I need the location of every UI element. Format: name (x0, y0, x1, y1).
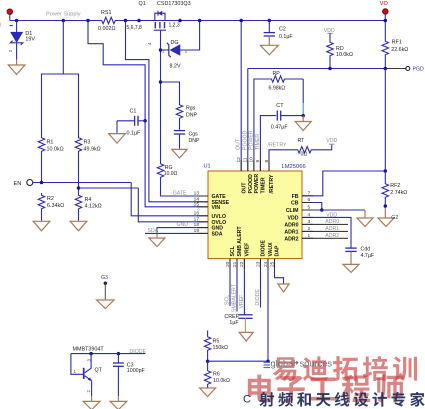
svg-text:2: 2 (86, 390, 91, 393)
node C3 junction (117, 352, 121, 356)
svg-text:EN: EN (14, 181, 22, 187)
svg-text:6.98kΩ: 6.98kΩ (269, 86, 286, 92)
svg-text:SCL: SCL (230, 245, 236, 256)
svg-text:VREF: VREF (239, 295, 245, 309)
wire SMBALERT pin 21 (236, 259, 238, 312)
ground at CLIM (357, 218, 373, 227)
ground under R2 (33, 221, 50, 231)
svg-text:6.34kΩ: 6.34kΩ (47, 203, 64, 209)
ground G2 (378, 218, 394, 227)
svg-text:Cdd: Cdd (361, 247, 371, 253)
capacitor C2 0.1uF (268, 21, 270, 33)
svg-text:CREF: CREF (224, 314, 239, 320)
wire VIN net to pin 15 (88, 21, 208, 207)
wire RD to PGD line (329, 58, 331, 69)
node RD PGD junction (328, 67, 332, 71)
svg-text:C: C (243, 394, 251, 406)
svg-text:sources: sources (300, 359, 333, 369)
svg-text:RT: RT (298, 138, 306, 144)
ground at GND pin (149, 238, 165, 247)
svg-text:POWER: POWER (248, 130, 254, 150)
wire Cgs to ground (179, 134, 181, 149)
svg-text:CLIM: CLIM (286, 208, 299, 214)
svg-text:R2: R2 (47, 196, 54, 202)
svg-text:ADR0: ADR0 (325, 219, 339, 225)
svg-text:1000pF: 1000pF (127, 368, 146, 374)
resistor R6 10.0k (207, 361, 209, 368)
capacitor Cgs DNP (174, 130, 185, 132)
wire DIODE net at QT (71, 353, 145, 355)
ground under R4 (70, 221, 87, 231)
svg-text:Power Supply: Power Supply (46, 12, 81, 18)
wire R2 to ground (41, 211, 43, 221)
node D1 junction on rail (15, 19, 19, 23)
wire SDA pin 19 (145, 232, 208, 234)
svg-text:SMB ALERT: SMB ALERT (237, 226, 243, 257)
wire PGD to terminal (387, 68, 406, 70)
svg-text:R3: R3 (84, 140, 91, 146)
svg-text:150kΩ: 150kΩ (213, 345, 228, 351)
node Q1 source on rail (178, 19, 182, 23)
diode DG zener 8.2V gate protect (161, 49, 169, 51)
svg-text:R6: R6 (213, 372, 220, 378)
ground under R6 (200, 388, 216, 397)
svg-text:ADR2: ADR2 (284, 236, 298, 242)
resistor R1 10.0k (38, 136, 44, 154)
node DG rail junction (198, 19, 202, 23)
capacitor C3 1000pF (117, 354, 119, 363)
svg-text:C2: C2 (279, 27, 286, 33)
wire RP right (287, 78, 304, 80)
svg-text:49.9kΩ: 49.9kΩ (84, 147, 101, 153)
node C2 rail junction (268, 19, 272, 23)
svg-text:FB: FB (292, 194, 299, 200)
node gate Rgs junction (159, 80, 163, 84)
U1 pin stubs (197, 195, 208, 197)
node VAUX corner (266, 359, 270, 363)
resistor RG 10.0ohm gate (157, 162, 163, 180)
wire PGD horizontal line (248, 68, 387, 70)
node VO rail junction (384, 19, 388, 23)
wire Q1 gate net (160, 30, 162, 161)
wire QT base tie (71, 354, 84, 375)
svg-text:RF1: RF1 (392, 40, 402, 46)
wire EN / UVLO net (33, 182, 131, 184)
svg-text:VIN: VIN (212, 205, 221, 211)
node C1 junction (143, 119, 147, 123)
svg-text:U1: U1 (204, 164, 211, 170)
wire VO stub (384, 14, 386, 21)
watermark global sources logo (264, 363, 271, 368)
node VI input terminal (7, 9, 12, 14)
svg-text:10.0kΩ: 10.0kΩ (213, 378, 230, 384)
wire SENSE net to pin 14 (126, 21, 209, 202)
wire GND pin 18 to ground (157, 228, 208, 232)
resistor RP 6.98k (269, 76, 286, 82)
wire DG to source rail (180, 21, 199, 51)
wire rail down to R1 (42, 21, 64, 136)
node Q1 drain on rail (137, 19, 141, 23)
wire R5 to tap (207, 353, 209, 362)
wire VI stub (9, 14, 11, 20)
svg-text:22.6kΩ: 22.6kΩ (391, 47, 408, 53)
svg-text:1µF: 1µF (229, 320, 239, 326)
svg-text:RF2: RF2 (390, 183, 400, 189)
watermark red text line 2 (248, 375, 274, 403)
svg-text:/RETRY: /RETRY (268, 142, 287, 148)
wire RF2 to G2 ground (384, 200, 386, 207)
ground at CT (295, 122, 311, 131)
svg-text:0.1µF: 0.1µF (279, 34, 293, 40)
svg-text:DIODE: DIODE (261, 240, 267, 257)
svg-text:Rgs: Rgs (186, 106, 196, 112)
ground under C2 (260, 45, 278, 55)
transistor Q1 CSD17303Q3 power MOSFET (155, 13, 165, 20)
wire rail right segment (118, 20, 386, 22)
svg-text:1: 1 (74, 369, 77, 374)
resistor RF2 2.74k (384, 171, 386, 182)
svg-text:LM25066: LM25066 (282, 164, 306, 170)
svg-text:0Ω: 0Ω (301, 152, 308, 158)
resistor R4 4.12k (75, 193, 81, 211)
wire OVLO to pin 17 (138, 188, 208, 222)
svg-text:1: 1 (162, 48, 165, 53)
op-amp U1 LM25066 hotswap controller IC body (208, 171, 302, 259)
wire rail to D1 (16, 21, 18, 33)
ground under C3 (110, 401, 127, 409)
svg-text:PGOOD: PGOOD (242, 130, 248, 150)
wire OVLO tap (79, 187, 139, 189)
wire R4 to ground (78, 211, 80, 221)
wire VAUX pin 24 to R5 R6 tap (267, 259, 269, 362)
svg-text:ADR0: ADR0 (284, 222, 298, 228)
resistor Rgs DNP (161, 82, 180, 103)
svg-text:2: 2 (185, 48, 188, 53)
svg-text:Cgs: Cgs (189, 131, 199, 137)
svg-text:SDA: SDA (212, 231, 223, 237)
svg-text:8.2V: 8.2V (170, 64, 181, 70)
svg-text:DIODE: DIODE (255, 289, 261, 306)
svg-text:G2: G2 (391, 215, 398, 221)
svg-text:QT: QT (95, 368, 103, 374)
svg-text:DNP: DNP (186, 113, 197, 119)
ground at DAP (278, 284, 289, 292)
svg-text:R4: R4 (85, 197, 92, 203)
svg-text:1,2,3: 1,2,3 (169, 23, 180, 29)
svg-text:ADR2: ADR2 (325, 233, 339, 239)
svg-text:4.12kΩ: 4.12kΩ (85, 204, 102, 210)
wire CB pin 6 (302, 203, 322, 211)
svg-text:ADR1: ADR1 (284, 229, 298, 235)
svg-text:VAUX: VAUX (268, 242, 274, 257)
wire PGD node down to FB node (384, 69, 386, 172)
svg-text:OUT: OUT (241, 182, 247, 194)
svg-text:CSD17303Q3: CSD17303Q3 (157, 1, 191, 7)
node RF1 PGD junction (384, 67, 388, 71)
svg-text:CB: CB (291, 201, 299, 207)
svg-text:C1: C1 (130, 109, 137, 115)
svg-text:RS1: RS1 (101, 10, 112, 16)
wire POWER pin 10 to RP (254, 79, 269, 171)
svg-text:VO: VO (380, 1, 389, 7)
wire VREF pin 22 to CREF (243, 259, 245, 315)
svg-text:DAP: DAP (275, 245, 281, 256)
wire C1 to ground (117, 120, 135, 122)
wire UVLO to pin 16 (131, 183, 208, 216)
resistor RD 10.0k pullup (329, 33, 331, 40)
wire ADR1 pin 2 (302, 230, 348, 232)
wire RF1 to PGD line (384, 57, 386, 69)
wire R3 to R4 (78, 154, 80, 194)
svg-text:Q1: Q1 (139, 1, 146, 7)
wire PGOOD pin 11 net (247, 69, 249, 172)
capacitor CREF 1uF (238, 314, 252, 316)
svg-text:4.7µF: 4.7µF (361, 253, 375, 259)
svg-text:19V: 19V (25, 37, 35, 43)
wire RT to VDD flag (314, 144, 332, 150)
svg-text:G3: G3 (101, 275, 108, 281)
node gate DG junction (159, 48, 163, 52)
svg-text:/RETRY: /RETRY (269, 174, 275, 193)
wire R1 to EN node (41, 154, 43, 183)
node R3 R4 OVLO tap (77, 186, 81, 190)
svg-text:0.1µF: 0.1µF (127, 130, 142, 136)
wire ADR0 pin 3 (302, 223, 348, 225)
svg-text:VREF: VREF (245, 243, 251, 257)
node rail to R1/R3 divider (62, 19, 66, 23)
node G2 (384, 204, 388, 208)
svg-text:4: 4 (147, 42, 152, 45)
svg-text:R1: R1 (47, 140, 54, 146)
svg-text:PGD: PGD (413, 67, 424, 73)
svg-text:DIODE: DIODE (130, 349, 147, 355)
resistor R3 49.9k (75, 136, 81, 154)
wire D1 to ground (16, 43, 18, 59)
wire RETRY pin 8 to RT (269, 150, 296, 171)
resistor R2 6.34k (38, 193, 44, 211)
svg-text:2.74kΩ: 2.74kΩ (390, 190, 407, 196)
svg-text:ˉˉˉˉˉ: ˉˉˉˉˉ (279, 373, 286, 378)
svg-text:10.0kΩ: 10.0kΩ (336, 52, 353, 58)
wire CT right to ground node (281, 115, 304, 117)
wire DAP pin 25 to ground (275, 259, 284, 284)
node CT ground junction (301, 114, 305, 118)
svg-text:ADR1: ADR1 (325, 226, 339, 232)
node OUT rail junction (239, 19, 243, 23)
svg-text:GND: GND (177, 222, 189, 228)
node R5 R6 VAUX tap (206, 359, 210, 363)
wire RP to ground cyan (302, 103, 304, 116)
power flag VDD at RT (329, 143, 334, 145)
wire rail left segment (10, 20, 100, 22)
wire SCL pin 20 (229, 259, 231, 306)
node FB RF2 junction (384, 169, 388, 173)
svg-text:VDD: VDD (326, 212, 337, 218)
svg-text:POWER: POWER (254, 174, 260, 194)
svg-text:DG: DG (171, 40, 179, 46)
svg-text:MMBT3904T: MMBT3904T (73, 347, 105, 353)
diode D1 zener 19V (11, 32, 23, 42)
svg-text:RP: RP (273, 71, 281, 77)
resistor RS1 0.002ohm sense (100, 17, 118, 23)
wire Rgs to Cgs (179, 121, 181, 130)
wire FB pin 7 to RF divider (302, 171, 385, 196)
svg-text:TIMER: TIMER (255, 134, 261, 150)
svg-text:OUT: OUT (236, 138, 242, 150)
watermark red text line 1 (273, 357, 297, 381)
wire R6 to ground (207, 387, 209, 388)
svg-text:PGOOD: PGOOD (248, 174, 254, 194)
wire tap to VAUX (208, 360, 268, 362)
svg-text:global: global (271, 359, 296, 369)
wire CLIM pin 5 to ground (302, 209, 365, 211)
ground G3 (97, 300, 114, 309)
svg-text:10.0Ω: 10.0Ω (164, 171, 178, 177)
ground under CREF (239, 332, 253, 341)
node PGD output terminal (406, 67, 410, 71)
svg-text:10.0kΩ: 10.0kΩ (47, 147, 64, 153)
svg-text:GATE: GATE (173, 191, 187, 197)
svg-text:VI: VI (0, 22, 1, 28)
svg-text:5,6,7,8: 5,6,7,8 (127, 25, 143, 31)
node EN R1 R2 junction (40, 181, 44, 185)
resistor R5 150k (207, 331, 209, 335)
capacitor CT 0.47uF (276, 111, 278, 121)
svg-text:SCL: SCL (225, 295, 231, 305)
svg-text:0.47µF: 0.47µF (271, 125, 289, 131)
svg-text:TIMER: TIMER (261, 177, 267, 193)
svg-text:SDA: SDA (148, 228, 159, 234)
wire QT emitter down (91, 381, 93, 397)
ground under QT (83, 401, 100, 409)
svg-text:VDD: VDD (326, 138, 337, 144)
resistor RF1 22.6k (384, 21, 386, 40)
svg-text:R5: R5 (213, 339, 220, 345)
node rail VIN tap (86, 19, 90, 23)
wire ADR2 pin 1 (302, 237, 348, 239)
node CB CLIM junction (320, 208, 324, 212)
wire RP down (302, 79, 304, 103)
ground under Cdd (343, 264, 359, 272)
capacitor C1 0.1uF (138, 120, 145, 122)
ground under Cgs (172, 149, 187, 158)
ground under C1 (109, 134, 126, 144)
ground under D1 (8, 65, 25, 75)
svg-text:VDD: VDD (288, 215, 299, 221)
node QT collector junction (89, 352, 93, 356)
svg-text:0.002Ω: 0.002Ω (98, 26, 116, 32)
wire DIODE pin 23 (260, 259, 262, 308)
svg-text:DNP: DNP (189, 138, 200, 144)
wire TIMER pin 9 to CT (260, 116, 276, 171)
capacitor Cdd 4.7uF (345, 247, 356, 249)
svg-text:2: 2 (8, 49, 13, 52)
wire OUT pin 12 to output rail (240, 21, 242, 172)
node rail SENSE tap (124, 19, 128, 23)
wire branch to R3 (63, 74, 78, 136)
svg-text:CT: CT (276, 103, 284, 109)
svg-text:SMBALERT: SMBALERT (232, 283, 238, 312)
node VO output terminal (383, 9, 388, 14)
resistor RT 0 ohm (296, 147, 314, 153)
wire VDD pin 4 to Cdd (302, 217, 351, 248)
wire RG to GATE pin 13 (161, 180, 209, 197)
